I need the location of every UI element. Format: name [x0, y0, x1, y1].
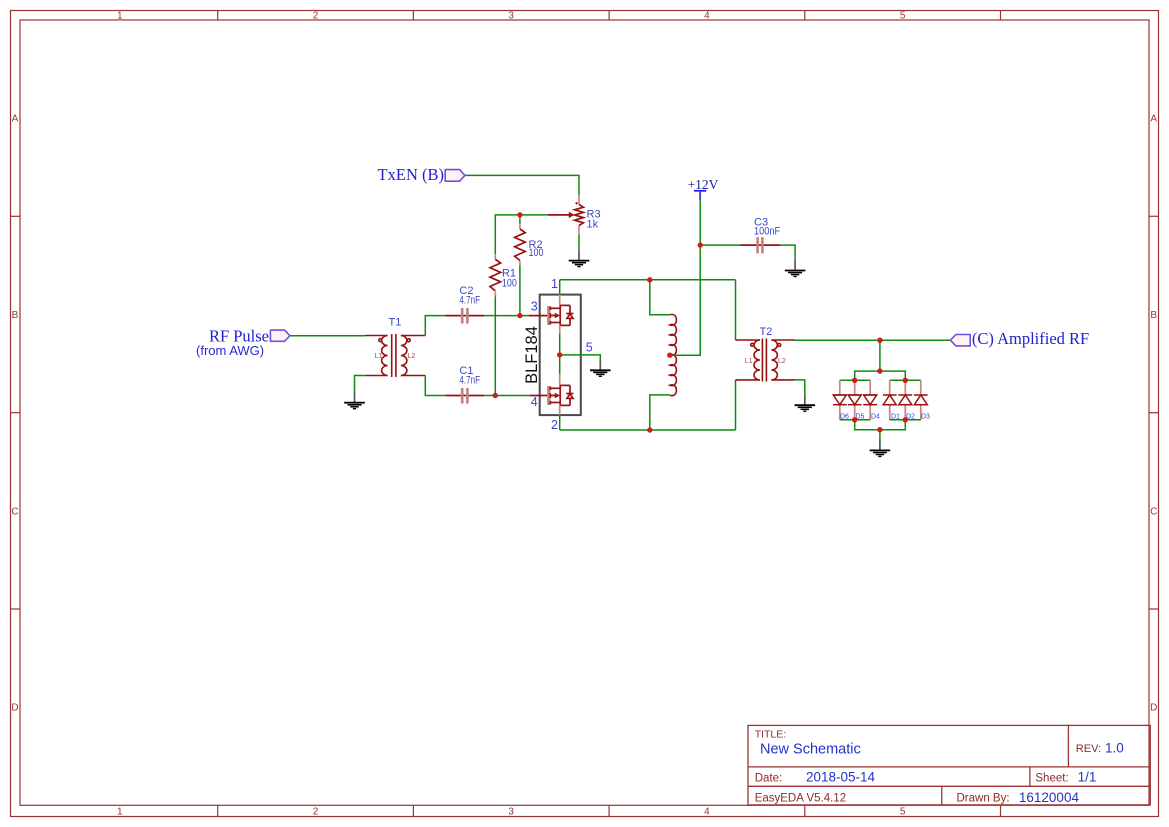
svg-text:(C) Amplified RF: (C) Amplified RF — [972, 329, 1089, 348]
svg-text:1k: 1k — [587, 219, 599, 231]
svg-text:5: 5 — [586, 340, 593, 354]
junction top bus / choke top — [647, 277, 652, 282]
svg-text:4: 4 — [704, 11, 710, 22]
capacitor C3 — [741, 237, 780, 253]
ground T1 — [344, 393, 365, 409]
wire R1 bottom — [494, 297, 496, 396]
junction output net / clipper — [877, 338, 882, 343]
svg-text:1: 1 — [551, 277, 558, 291]
svg-text:TxEN (B): TxEN (B) — [378, 165, 444, 184]
svg-text:+12V: +12V — [688, 177, 719, 192]
wire R2 top — [519, 215, 521, 224]
svg-text:5: 5 — [900, 806, 906, 817]
diode D1 — [883, 395, 897, 405]
svg-text:1.0: 1.0 — [1105, 741, 1124, 756]
wire C3 left — [700, 244, 740, 246]
svg-text:A: A — [12, 114, 19, 125]
pin 2 (U1) — [551, 415, 560, 432]
wire RF Pulse to T1 — [290, 335, 365, 337]
transformer T1 — [365, 334, 425, 377]
frame column numbers bottom — [117, 806, 906, 817]
svg-text:3: 3 — [508, 11, 514, 22]
svg-text:L1: L1 — [375, 353, 383, 360]
svg-text:Date:: Date: — [755, 772, 783, 784]
junction left trio bottom — [852, 417, 857, 422]
ground clipper — [870, 439, 891, 457]
svg-text:New Schematic: New Schematic — [760, 742, 861, 758]
svg-text:T2: T2 — [760, 326, 773, 338]
netlabel TxEN (B) — [378, 165, 444, 184]
junction right trio bottom — [903, 417, 908, 422]
svg-text:Drawn By:: Drawn By: — [957, 793, 1010, 805]
wire TxEN to R3 — [465, 175, 579, 195]
svg-text:4.7nF: 4.7nF — [459, 374, 480, 386]
svg-text:REV:: REV: — [1076, 743, 1101, 755]
ground C3 — [785, 260, 806, 276]
junction choke center tap — [667, 353, 672, 358]
internal wire pin1 node — [559, 334, 561, 374]
wire T2 bottom-right to ground — [795, 380, 805, 395]
junction bias rail / R2 tap — [517, 212, 522, 217]
svg-text:3: 3 — [508, 806, 514, 817]
svg-text:100: 100 — [502, 278, 517, 290]
junction clipper split — [877, 368, 882, 373]
diode D6 — [833, 395, 847, 405]
svg-text:4.7nF: 4.7nF — [459, 295, 480, 307]
svg-text:L2: L2 — [778, 358, 786, 365]
wire T1 bottom-right to C1 — [425, 376, 445, 396]
svg-text:A: A — [1150, 114, 1157, 125]
wire clipper to ground — [879, 430, 881, 439]
junction pin5 node — [557, 352, 562, 357]
wire T2 to output port — [795, 339, 951, 341]
wire bottom bus — [560, 429, 736, 431]
ground pin5 — [590, 360, 611, 376]
junction clipper ground node — [877, 427, 882, 432]
svg-text:100: 100 — [529, 247, 544, 259]
svg-text:TITLE:: TITLE: — [755, 729, 787, 741]
frame column numbers top — [117, 11, 906, 22]
port RF Pulse — [270, 330, 290, 341]
svg-text:L1: L1 — [745, 358, 753, 365]
wire choke bottom — [650, 395, 670, 430]
ground R3 — [569, 250, 590, 266]
diode D5 — [848, 395, 862, 405]
svg-text:100nF: 100nF — [754, 226, 780, 238]
wire clipper split — [855, 371, 906, 380]
svg-text:Sheet:: Sheet: — [1035, 772, 1068, 784]
svg-text:T1: T1 — [389, 317, 402, 329]
svg-text:EasyEDA V5.4.12: EasyEDA V5.4.12 — [755, 793, 846, 805]
wire left trio bottom rail — [840, 419, 870, 421]
diode leads right trio — [890, 380, 921, 420]
inductor L1 center-tapped choke — [670, 314, 677, 395]
wire C1 to pin4 — [484, 395, 529, 397]
junction pin3 net / R2 bottom — [517, 313, 522, 318]
junction pin4 net / R1 bottom — [493, 393, 498, 398]
title block — [748, 725, 1150, 805]
svg-text:D4: D4 — [871, 414, 880, 421]
diode D4 — [863, 395, 877, 405]
svg-text:3: 3 — [531, 300, 538, 314]
svg-text:16120004: 16120004 — [1019, 790, 1080, 805]
svg-text:2: 2 — [551, 418, 558, 432]
ground T2 — [795, 395, 816, 411]
svg-text:1: 1 — [117, 11, 123, 22]
junction right trio top — [903, 378, 908, 383]
wire C2 to pin3 junction — [484, 315, 528, 317]
potentiometer R3 — [548, 195, 584, 234]
pin 5 (U1) wire to ground — [560, 340, 601, 360]
pin 4 (U1) — [530, 395, 548, 409]
wire C3 to ground — [780, 245, 795, 260]
svg-text:2: 2 — [313, 11, 319, 22]
svg-text:D: D — [11, 703, 18, 714]
IC U1 BLF184 body — [523, 295, 581, 416]
wire clipper drop — [879, 340, 881, 371]
port TxEN — [445, 170, 465, 182]
pin 1 (U1) — [551, 277, 560, 295]
svg-text:C: C — [1150, 506, 1157, 517]
resistor R2 — [515, 224, 526, 265]
wire clipper merge — [855, 420, 906, 430]
capacitor C2 — [446, 308, 485, 324]
wire choke top — [650, 280, 670, 315]
port (C) Amplified RF — [950, 335, 970, 346]
frame row letters right — [1150, 114, 1157, 714]
svg-text:B: B — [1150, 310, 1157, 321]
svg-text:BLF184: BLF184 — [523, 326, 541, 384]
wire bottom bus to T2 — [735, 380, 737, 430]
svg-text:D3: D3 — [921, 414, 930, 421]
svg-text:4: 4 — [531, 395, 538, 409]
svg-text:5: 5 — [900, 11, 906, 22]
resistor R1 — [490, 254, 501, 296]
diode D3 — [914, 395, 928, 405]
junction left trio top — [852, 378, 857, 383]
svg-text:2018-05-14: 2018-05-14 — [806, 770, 876, 785]
wire bias rail — [495, 215, 547, 254]
junction bottom bus / choke bottom — [647, 427, 652, 432]
wire top bus to T2 — [735, 280, 737, 340]
capacitor C1 — [446, 388, 485, 404]
svg-text:(from AWG): (from AWG) — [196, 343, 264, 358]
svg-text:1/1: 1/1 — [1078, 770, 1097, 785]
wire left trio top rail — [840, 379, 870, 381]
wire T1 bottom-left to ground — [355, 376, 366, 393]
svg-text:D: D — [1150, 703, 1157, 714]
svg-text:2: 2 — [313, 806, 319, 817]
transistor Q1 (top MOSFET of U1) — [549, 295, 574, 334]
wire right trio bottom rail — [890, 419, 921, 421]
diode leads left trio — [840, 380, 870, 420]
svg-text:1: 1 — [117, 806, 123, 817]
svg-text:4: 4 — [704, 806, 710, 817]
wire R3 to ground — [578, 235, 580, 251]
svg-text:L2: L2 — [408, 353, 416, 360]
wire top bus — [560, 279, 736, 281]
svg-text:B: B — [12, 310, 19, 321]
transformer T2 — [736, 339, 795, 382]
frame row letters left — [11, 114, 18, 714]
transistor Q2 (bottom MOSFET of U1) — [549, 374, 574, 415]
wire R2 bottom — [519, 265, 521, 315]
junction +12V / C3 — [698, 242, 703, 247]
wire T1 top-right to C2 — [425, 316, 445, 336]
svg-text:C: C — [11, 506, 18, 517]
power flag +12V — [688, 177, 719, 200]
diode D2 — [898, 395, 912, 405]
wire center tap to +12V — [670, 200, 700, 355]
pin 3 (U1) — [529, 300, 548, 316]
title block texts — [755, 729, 1124, 805]
wire right trio top rail — [890, 379, 921, 381]
